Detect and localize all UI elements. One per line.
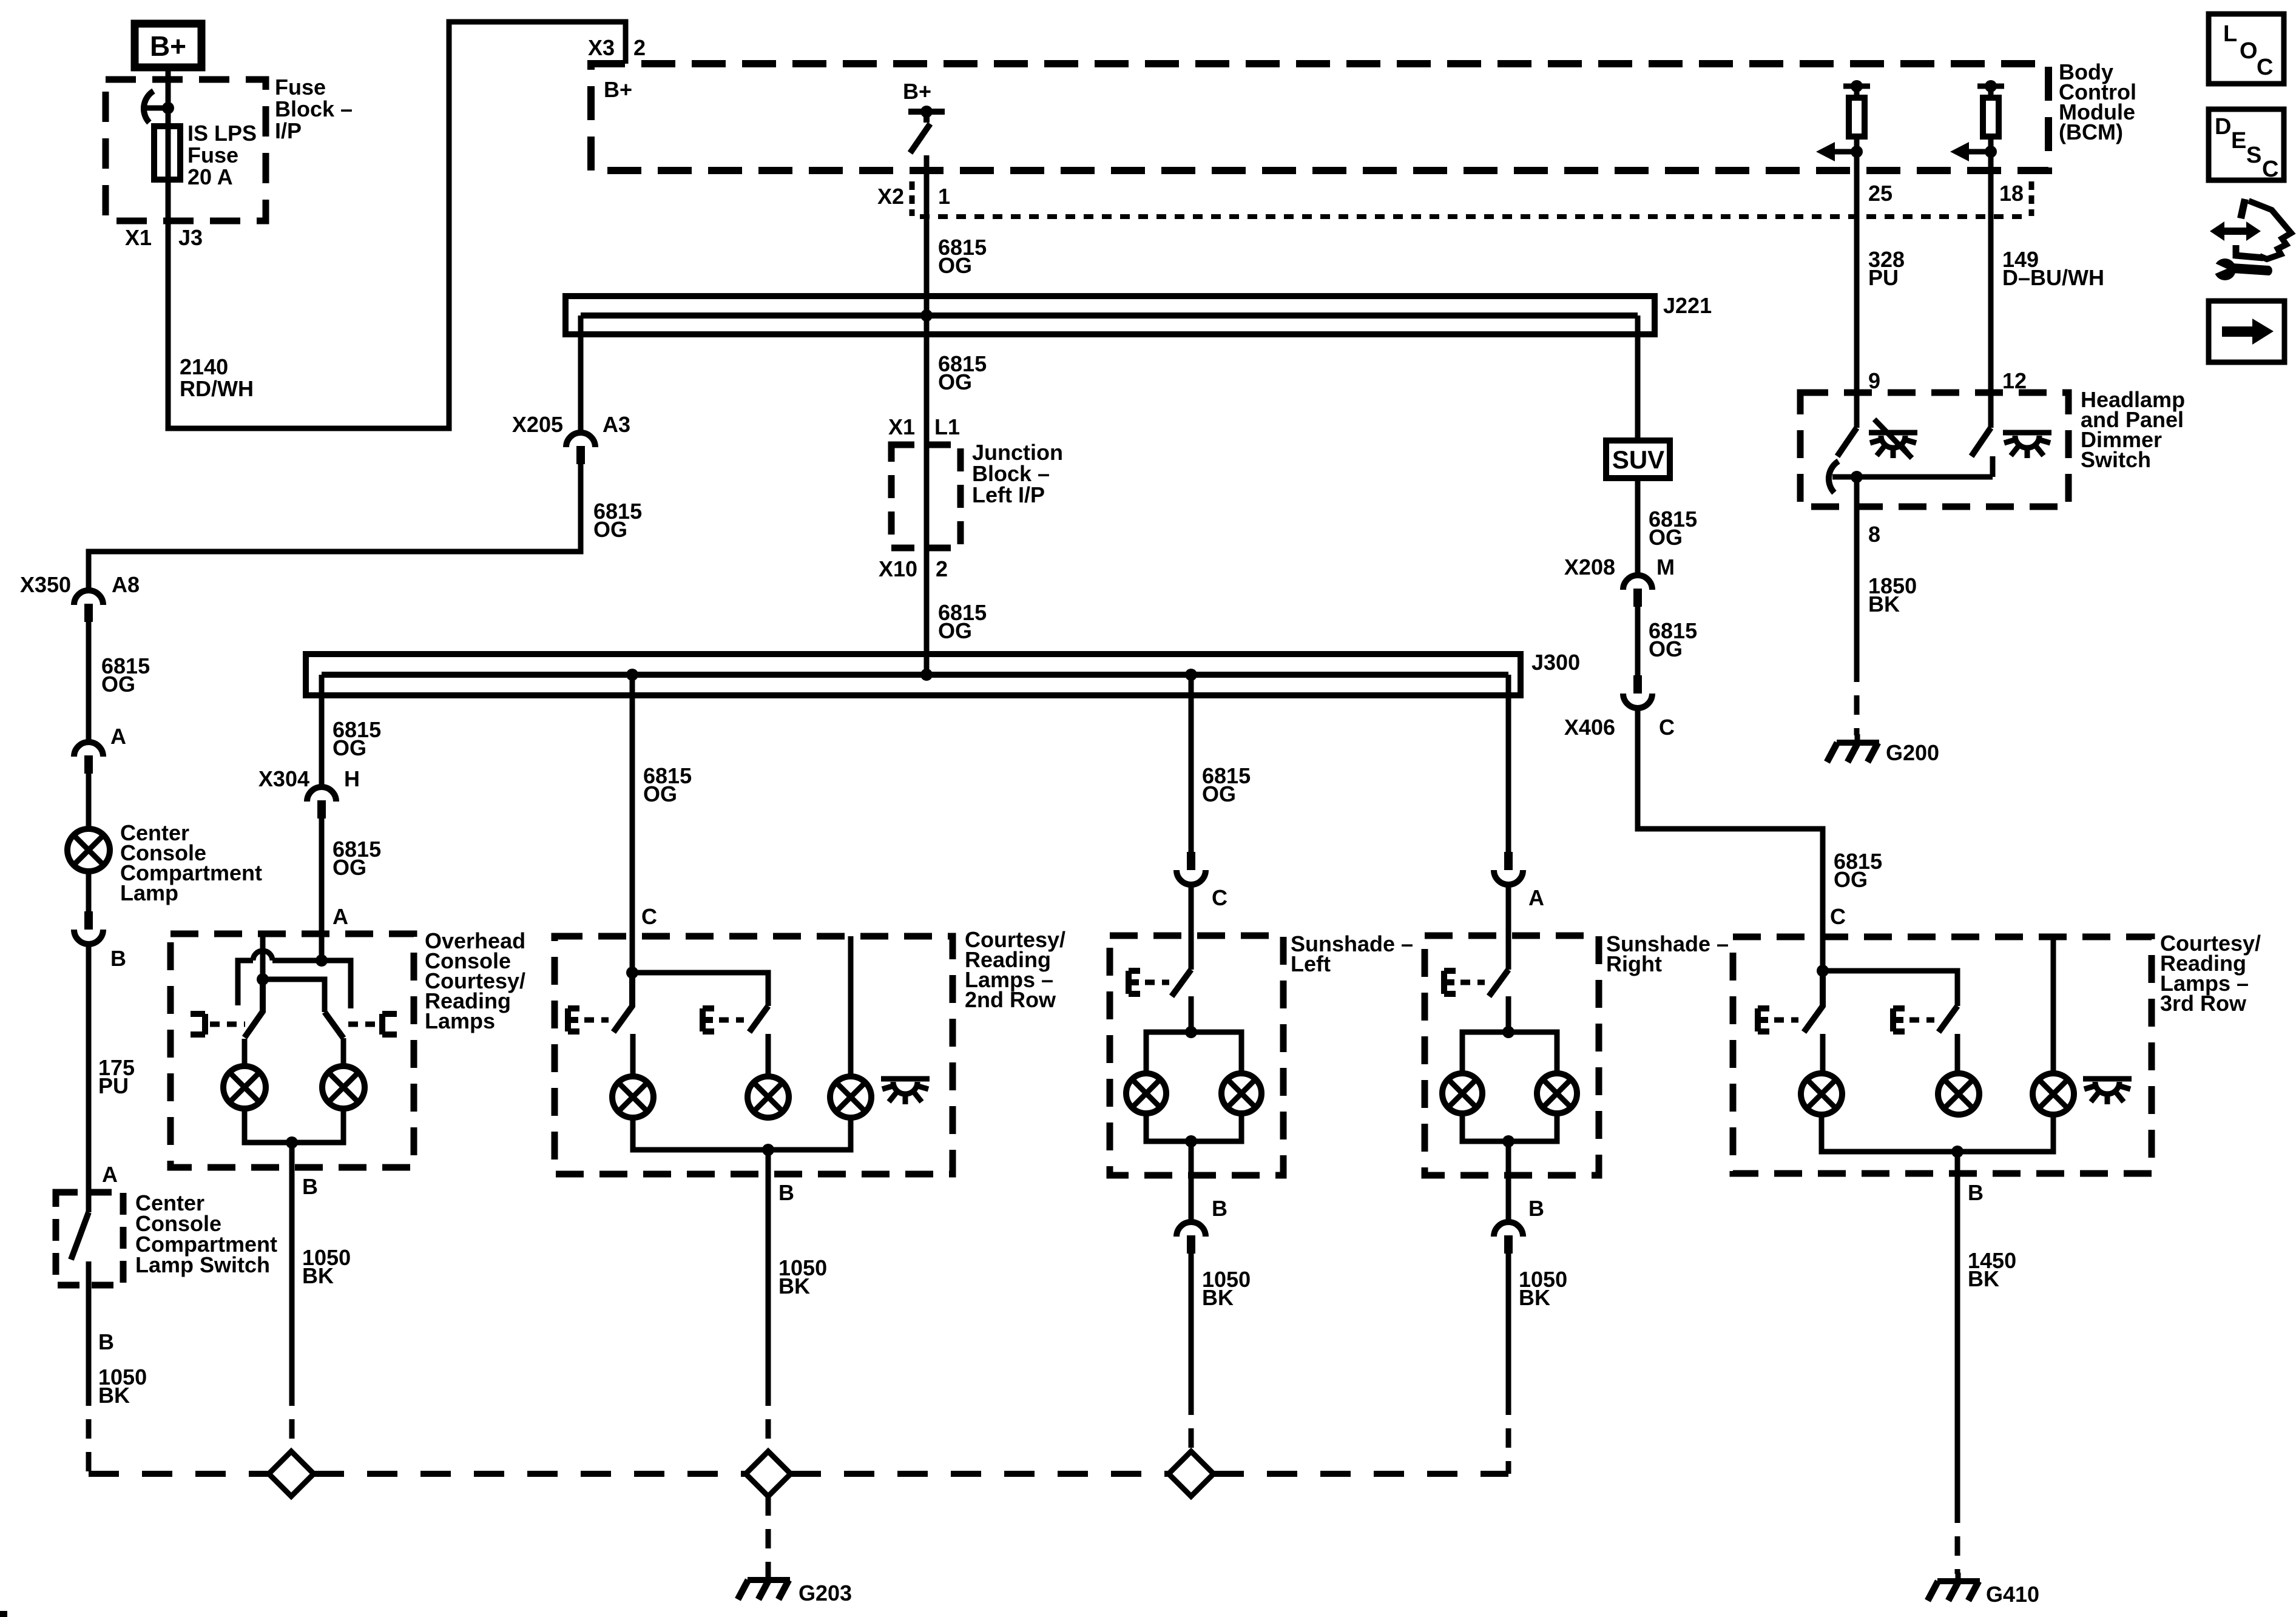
courtesy reading lamps 3rd row dashed outline bbox=[1733, 937, 2152, 1173]
svg-text:L1: L1 bbox=[934, 414, 960, 439]
wire - sunshade right below connector bbox=[1506, 1254, 1511, 1396]
svg-text:L: L bbox=[2223, 21, 2237, 47]
overhead console left switch blade bbox=[245, 979, 263, 1038]
connector X406 terminal C bbox=[1633, 675, 1642, 694]
sunshade right lamp 1 bbox=[1442, 1073, 1482, 1113]
door linkage symbol 2nd row right bbox=[703, 1008, 714, 1031]
wire - J300 to X304 bbox=[319, 675, 325, 787]
BCM sense arrow pin 25 bbox=[1834, 149, 1857, 155]
svg-text:X208: X208 bbox=[1564, 555, 1615, 579]
junction dot 2nd row return bbox=[762, 1144, 774, 1156]
wire - dashed to splice diamond sunshade left bbox=[1189, 1396, 1194, 1451]
sunshade right dashed outline bbox=[1425, 936, 1599, 1175]
svg-text:Left: Left bbox=[1291, 951, 1331, 976]
wire - J300 to sunshade left bbox=[1189, 675, 1194, 852]
2nd row feed bar bbox=[632, 973, 768, 1006]
connector C sunshade left bbox=[1187, 852, 1195, 870]
2nd row lamp return bus bbox=[633, 1118, 851, 1150]
svg-text:A: A bbox=[1528, 885, 1544, 910]
dome lamp icon bbox=[2003, 433, 2051, 458]
wire - sunshade right ground lead bbox=[1506, 1141, 1511, 1222]
svg-text:2: 2 bbox=[936, 556, 948, 581]
overhead console left lamp stub bbox=[242, 1039, 248, 1066]
wire - dashed to ground bus sunshade right bbox=[1506, 1396, 1511, 1474]
BCM sense arrow pin 18 bbox=[1968, 149, 1991, 155]
wire - X208 to X406 bbox=[1635, 607, 1641, 675]
door linkage symbol sunshade left bbox=[1129, 971, 1140, 994]
wire - dimmer pin 8 to ground bbox=[1854, 477, 1860, 663]
ground bus dashed segment 4 to sunshade right bbox=[1214, 1471, 1508, 1477]
splice diamond overhead console bbox=[269, 1451, 314, 1496]
illumination rays 3rd row bbox=[2083, 1079, 2132, 1104]
2nd row courtesy lamp right bbox=[830, 1076, 871, 1118]
2nd row left lamp stub bbox=[630, 1034, 636, 1076]
svg-text:C: C bbox=[1212, 885, 1227, 910]
svg-text:A3: A3 bbox=[603, 412, 630, 437]
wire - dashed G203 drop bbox=[766, 1496, 771, 1573]
svg-text:B: B bbox=[98, 1329, 114, 1354]
LOC legend box bbox=[2209, 14, 2284, 84]
junction block left IP dashed outline bbox=[891, 445, 961, 548]
ground G410 bbox=[1956, 1573, 1961, 1581]
junction dot sunshade right bottom bbox=[1502, 1135, 1514, 1147]
svg-text:BK: BK bbox=[1968, 1266, 1999, 1291]
wire - sunshade left ground lead bbox=[1189, 1141, 1194, 1222]
connector X2 right tick bbox=[2029, 181, 2034, 216]
junction dot 3rd row feed bbox=[1817, 965, 1829, 977]
svg-text:2: 2 bbox=[633, 35, 646, 60]
wrench icon bbox=[2210, 258, 2272, 280]
junction dot dimmer output bbox=[1851, 471, 1863, 483]
wire - connector A to lamp bbox=[86, 774, 92, 829]
svg-text:B: B bbox=[1968, 1180, 1984, 1205]
wire - J221 to X205 bbox=[578, 316, 584, 433]
wire - BCM output through X2-1 to J221 and junction block bbox=[924, 155, 930, 675]
svg-text:C: C bbox=[1830, 904, 1846, 929]
svg-text:Block –: Block – bbox=[275, 96, 353, 121]
connector X2 tick bbox=[910, 181, 915, 216]
junction dot overhead second bar bbox=[257, 973, 269, 985]
wire - lamp to connector B bbox=[86, 871, 92, 911]
svg-text:C: C bbox=[2262, 157, 2278, 182]
svg-text:(BCM): (BCM) bbox=[2059, 120, 2123, 144]
ground bus dashed segment 3 bbox=[791, 1471, 1169, 1477]
svg-text:PU: PU bbox=[98, 1073, 129, 1098]
svg-text:OG: OG bbox=[1834, 867, 1868, 892]
2nd row left switch blade bbox=[613, 973, 632, 1032]
splice pack J221 bus bar bbox=[581, 312, 1638, 319]
wire - dashed to ground G200 bbox=[1854, 663, 1860, 735]
svg-text:RD/WH: RD/WH bbox=[180, 376, 254, 401]
svg-text:Lamps: Lamps bbox=[425, 1008, 495, 1033]
junction dot overhead return bbox=[286, 1136, 298, 1149]
svg-text:C: C bbox=[2257, 55, 2273, 80]
wire - dashed to splice diamond bbox=[289, 1386, 295, 1451]
wire - J300 to 2nd row lamps bbox=[630, 675, 635, 973]
svg-text:PU: PU bbox=[1868, 265, 1899, 290]
overhead console reading lamp left bbox=[223, 1066, 266, 1109]
svg-text:OG: OG bbox=[938, 618, 972, 643]
overhead console right switch blade bbox=[325, 1012, 343, 1038]
dimmer output bus bbox=[1832, 456, 1993, 477]
svg-text:B: B bbox=[110, 946, 126, 971]
page corner mark bbox=[0, 1611, 7, 1617]
junction dot J300 feed bbox=[920, 669, 933, 681]
3rd row courtesy lamp left bbox=[1801, 1073, 1842, 1115]
hand with double arrow icon bbox=[2241, 199, 2245, 218]
svg-text:B+: B+ bbox=[150, 30, 186, 62]
overhead console lamp return bus bbox=[245, 1109, 343, 1143]
courtesy reading lamps 2nd row dashed outline bbox=[555, 936, 953, 1174]
svg-text:25: 25 bbox=[1868, 181, 1893, 206]
svg-text:E: E bbox=[2231, 128, 2246, 154]
center console lamp switch dashed outline bbox=[56, 1192, 123, 1285]
svg-text:J3: J3 bbox=[178, 225, 203, 250]
panel dimmer icon with slash bbox=[1869, 419, 1917, 458]
connector A sunshade right bbox=[1504, 852, 1513, 870]
svg-text:BK: BK bbox=[1519, 1285, 1550, 1310]
DESC legend box bbox=[2209, 109, 2284, 180]
connector B sunshade right bbox=[1494, 1222, 1523, 1237]
svg-text:2140: 2140 bbox=[180, 354, 228, 379]
svg-text:IS LPS: IS LPS bbox=[187, 121, 257, 146]
svg-text:B: B bbox=[1528, 1196, 1544, 1221]
connector X208 terminal M bbox=[1623, 575, 1652, 590]
splice diamond 2nd row / G203 tap bbox=[746, 1451, 791, 1496]
connector B center console lamp bbox=[84, 911, 93, 930]
svg-text:BK: BK bbox=[778, 1274, 810, 1298]
svg-text:OG: OG bbox=[1202, 781, 1236, 806]
2nd row right lamp stub bbox=[766, 1034, 771, 1076]
BCM courtesy lamp driver switch bbox=[908, 112, 945, 153]
svg-text:D: D bbox=[2215, 114, 2231, 140]
wire - BCM pin 25 to dimmer pin 9 bbox=[1854, 152, 1860, 428]
svg-text:Fuse: Fuse bbox=[275, 75, 326, 100]
wire - dashed to ground bus bbox=[86, 1386, 92, 1474]
svg-text:SUV: SUV bbox=[1612, 445, 1664, 474]
svg-text:OG: OG bbox=[101, 672, 135, 697]
svg-text:X205: X205 bbox=[512, 412, 563, 437]
svg-text:A: A bbox=[102, 1162, 118, 1187]
connector B sunshade left bbox=[1177, 1222, 1206, 1237]
svg-text:Lamp Switch: Lamp Switch bbox=[135, 1252, 270, 1277]
junction dot sunshade left bottom bbox=[1185, 1135, 1197, 1147]
svg-text:X1: X1 bbox=[125, 225, 152, 250]
junction dot overhead feed bbox=[316, 954, 328, 967]
svg-text:A: A bbox=[110, 724, 126, 749]
overhead left door-linkage bracket bbox=[191, 1014, 205, 1035]
sunshade right switch blade bbox=[1489, 970, 1508, 996]
svg-text:OG: OG bbox=[643, 781, 677, 806]
svg-text:OG: OG bbox=[333, 735, 366, 760]
svg-text:G410: G410 bbox=[1986, 1582, 2039, 1607]
svg-text:2nd Row: 2nd Row bbox=[965, 987, 1056, 1012]
svg-text:OG: OG bbox=[593, 517, 627, 542]
svg-text:G200: G200 bbox=[1886, 740, 1939, 765]
connector A center console lamp bbox=[74, 742, 103, 757]
sunshade left lamp 2 bbox=[1221, 1073, 1261, 1113]
svg-text:BK: BK bbox=[302, 1263, 334, 1288]
wire - 3rd row ground lead bbox=[1955, 1152, 1960, 1504]
svg-text:OG: OG bbox=[938, 370, 972, 394]
svg-text:D–BU/WH: D–BU/WH bbox=[2002, 265, 2104, 290]
sunshade left lamp loop top bbox=[1146, 1032, 1241, 1073]
dimmer output clip bbox=[1829, 461, 1838, 493]
2nd row right switch blade bbox=[749, 1006, 768, 1032]
svg-text:X10: X10 bbox=[879, 556, 917, 581]
2nd row courtesy lamp center bbox=[748, 1076, 789, 1118]
wire - lamp switch output bbox=[86, 1261, 92, 1386]
fuse block dashed outline bbox=[106, 79, 266, 221]
wire - 2nd row always-on lamp feed bbox=[848, 936, 854, 1076]
center console lamp switch blade bbox=[71, 1212, 89, 1260]
svg-text:B+: B+ bbox=[604, 77, 632, 102]
overhead console dome supply wire bbox=[260, 934, 266, 979]
svg-text:X1: X1 bbox=[888, 414, 915, 439]
dimmer right switch blade bbox=[1971, 428, 1991, 456]
junction dot sunshade right top bbox=[1502, 1026, 1514, 1038]
sunshade left dashed outline bbox=[1110, 936, 1283, 1175]
SUV option box bbox=[1606, 441, 1670, 478]
fuse block clip terminal bbox=[144, 106, 168, 111]
svg-text:X3: X3 bbox=[588, 35, 615, 60]
wire - overhead console ground lead bbox=[289, 1143, 295, 1386]
junction dot J300 sunshade tap bbox=[1185, 669, 1197, 681]
3rd row courtesy lamp center bbox=[1938, 1073, 1979, 1115]
svg-text:OG: OG bbox=[1649, 525, 1683, 550]
wire - connector B to lamp switch bbox=[86, 947, 92, 1212]
sunshade left lamp loop bottom bbox=[1146, 1113, 1241, 1141]
wire - 3rd row always-on lamp feed bbox=[2051, 937, 2056, 1073]
connector X2 row dotted line bbox=[920, 214, 2027, 219]
svg-text:I/P: I/P bbox=[275, 118, 302, 143]
ground G200 bbox=[1855, 734, 1860, 743]
door linkage symbol 3rd row right bbox=[1893, 1008, 1905, 1031]
svg-text:X2: X2 bbox=[877, 184, 904, 209]
svg-text:O: O bbox=[2240, 38, 2258, 64]
3rd row left switch blade bbox=[1804, 971, 1823, 1032]
svg-text:A8: A8 bbox=[112, 572, 140, 597]
sunshade left lamp 1 bbox=[1126, 1073, 1166, 1113]
svg-text:J221: J221 bbox=[1663, 293, 1712, 318]
wire - X304 into overhead console bbox=[319, 819, 325, 960]
junction dot J300 2nd row tap bbox=[626, 669, 638, 681]
connector X304 terminal H bbox=[307, 787, 336, 802]
svg-text:X350: X350 bbox=[20, 572, 71, 597]
svg-text:B: B bbox=[1212, 1196, 1227, 1221]
junction dot sunshade left top bbox=[1185, 1026, 1197, 1038]
connector X350 terminal A8 bbox=[74, 590, 103, 605]
svg-text:A: A bbox=[333, 904, 348, 929]
junction dot J221 feed bbox=[920, 309, 933, 322]
splice pack J221 housing bbox=[566, 296, 1655, 334]
svg-text:B+: B+ bbox=[903, 79, 931, 104]
svg-text:C: C bbox=[1659, 715, 1675, 740]
sunshade right lamp 2 bbox=[1537, 1073, 1577, 1113]
wire - sunshade left below connector bbox=[1189, 1254, 1194, 1396]
forward arrow legend box bbox=[2209, 301, 2284, 362]
BCM pullup resistor pin 25 bbox=[1843, 86, 1870, 152]
wire - J300 to sunshade right bbox=[1506, 675, 1511, 852]
overhead console second bar bbox=[263, 979, 325, 1012]
connector X205 terminal A3 bbox=[566, 433, 595, 447]
svg-text:20 A: 20 A bbox=[187, 164, 233, 189]
overhead console internal feed bar with hop bbox=[238, 951, 351, 1008]
3rd row lamp return bus bbox=[1822, 1115, 2053, 1152]
wire - dashed to ground G410 bbox=[1955, 1504, 1960, 1574]
3rd row feed bar bbox=[1823, 971, 1957, 1006]
ground bus dashed left segment bbox=[89, 1471, 269, 1477]
3rd row left lamp stub bbox=[1820, 1034, 1826, 1073]
BCM pullup resistor pin 18 bbox=[1977, 86, 2004, 152]
svg-text:OG: OG bbox=[938, 253, 972, 278]
svg-text:B: B bbox=[778, 1180, 794, 1205]
3rd row courtesy lamp right bbox=[2033, 1073, 2074, 1115]
overhead console reading lamp right bbox=[322, 1066, 365, 1109]
overhead right door-linkage bracket bbox=[382, 1014, 397, 1035]
wire - B+ feed down through fuse, right and up to BCM X3-2 bbox=[168, 22, 626, 428]
splice pack J300 bus bar bbox=[322, 672, 1508, 678]
Body Control Module dashed outline bbox=[591, 64, 2048, 170]
overhead console right lamp stub bbox=[341, 1038, 346, 1066]
wire - 2nd row ground lead bbox=[766, 1150, 771, 1386]
sunshade right lamp loop bottom bbox=[1462, 1113, 1557, 1141]
svg-text:G203: G203 bbox=[799, 1581, 852, 1605]
svg-text:Switch: Switch bbox=[2081, 447, 2151, 472]
svg-text:OG: OG bbox=[1649, 636, 1683, 661]
wire - J221 to SUV option box bbox=[1635, 316, 1641, 441]
svg-text:BK: BK bbox=[1868, 592, 1900, 616]
junction dot 2nd row feed bbox=[626, 967, 638, 979]
junction dot 3rd row return bbox=[1951, 1146, 1963, 1158]
sunshade right switch output bbox=[1506, 996, 1511, 1032]
svg-text:OG: OG bbox=[333, 855, 366, 880]
svg-text:M: M bbox=[1656, 555, 1675, 579]
overhead console dashed outline bbox=[171, 934, 414, 1167]
door linkage symbol 3rd row left bbox=[1758, 1008, 1769, 1031]
center console compartment lamp bbox=[67, 829, 110, 871]
wire - into sunshade right bbox=[1506, 887, 1511, 970]
svg-text:B: B bbox=[302, 1174, 318, 1199]
wire - BCM pin 18 to dimmer pin 12 bbox=[1988, 152, 1994, 428]
3rd row right lamp stub bbox=[1955, 1034, 1960, 1073]
svg-text:BK: BK bbox=[1202, 1285, 1234, 1310]
svg-text:Lamp: Lamp bbox=[120, 880, 178, 905]
B+ power feed box bbox=[135, 24, 201, 67]
svg-text:X406: X406 bbox=[1564, 715, 1615, 740]
fuse F IS LPS 20A bbox=[154, 126, 180, 180]
splice diamond sunshade left bbox=[1169, 1451, 1214, 1496]
svg-text:1: 1 bbox=[938, 184, 950, 209]
3rd row right switch blade bbox=[1939, 1006, 1957, 1032]
ground bus dashed segment 2 bbox=[314, 1471, 746, 1477]
svg-text:18: 18 bbox=[1999, 181, 2024, 206]
svg-text:Fuse: Fuse bbox=[187, 143, 238, 167]
wire - X350 to connector A bbox=[86, 622, 92, 742]
wire - SUV box to X208 bbox=[1635, 478, 1641, 575]
wire - dashed to splice diamond 2nd row bbox=[766, 1386, 771, 1451]
wire - X406 down and right to 3rd row lamps bbox=[1638, 711, 1823, 971]
headlamp and panel dimmer switch dashed outline bbox=[1800, 393, 2068, 507]
2nd row courtesy lamp left bbox=[612, 1076, 653, 1118]
svg-text:3rd Row: 3rd Row bbox=[2160, 991, 2247, 1016]
door linkage symbol sunshade right bbox=[1444, 971, 1456, 994]
wire - into sunshade left bbox=[1189, 887, 1194, 970]
wire - X205 down and left to X350 bbox=[89, 464, 581, 590]
junction dot fuse feed bbox=[162, 102, 174, 114]
svg-text:C: C bbox=[641, 904, 657, 929]
sunshade right lamp loop top bbox=[1462, 1032, 1557, 1073]
svg-text:8: 8 bbox=[1868, 522, 1880, 547]
sunshade left switch blade bbox=[1172, 970, 1191, 996]
dimmer left switch blade bbox=[1837, 428, 1857, 456]
svg-text:Left I/P: Left I/P bbox=[972, 482, 1045, 507]
sunshade left switch output bbox=[1189, 996, 1194, 1032]
svg-text:S: S bbox=[2246, 143, 2261, 168]
svg-text:Right: Right bbox=[1606, 951, 1662, 976]
svg-text:H: H bbox=[344, 766, 360, 791]
splice pack J300 housing bbox=[306, 654, 1521, 695]
svg-text:BK: BK bbox=[98, 1383, 130, 1408]
ground G203 bbox=[766, 1571, 771, 1580]
svg-text:X304: X304 bbox=[258, 766, 309, 791]
svg-text:J300: J300 bbox=[1531, 650, 1580, 675]
door linkage symbol 2nd row left bbox=[568, 1008, 579, 1031]
illumination rays 2nd row bbox=[881, 1079, 930, 1104]
